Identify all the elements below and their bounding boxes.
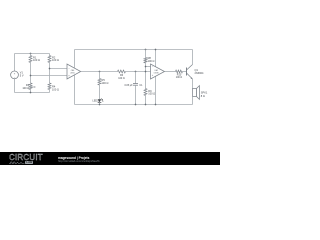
wire OA2 positive supply pin: [155, 50, 157, 67]
node LED bottom junction: [99, 104, 101, 106]
wire R8 upper lead: [145, 50, 147, 58]
node stub junction: [145, 66, 147, 68]
wire bottom rail of bridge: [15, 92, 50, 94]
LED emission arrows: [101, 98, 103, 99]
transistor Q1: [186, 68, 188, 76]
node R8 top rail junction: [145, 49, 147, 51]
CircuitLab logo waveform: [9, 161, 25, 165]
svg-text:OA1: OA1: [71, 69, 75, 72]
wire C1 upper lead: [135, 72, 137, 84]
svg-text:0.05 µF: 0.05 µF: [124, 84, 133, 87]
svg-text:100 Ω: 100 Ω: [33, 58, 40, 62]
node branch1 bottom junction: [30, 92, 32, 94]
wire branch1 lower lead: [30, 90, 32, 93]
wire top power rail: [75, 49, 193, 51]
resistor R1: [29, 56, 32, 63]
svg-text:100 Ω: 100 Ω: [118, 77, 125, 80]
wire branch2 lower lead: [49, 90, 51, 93]
node tap B junction: [49, 68, 51, 70]
svg-text:LM741: LM741: [70, 73, 75, 75]
LED LED1: [98, 99, 102, 102]
voltage source V1: [11, 71, 19, 79]
resistor R9: [144, 89, 147, 96]
node C1 bottom junction: [135, 104, 137, 106]
node C1 junction: [135, 71, 137, 73]
svg-text:5 V: 5 V: [20, 74, 24, 78]
wire branch1 middle: [30, 63, 32, 84]
node OA2 top rail junction: [155, 49, 157, 51]
resistor R10: [176, 70, 183, 73]
wiper arrow of R3: [31, 86, 34, 88]
svg-text:100 Ω: 100 Ω: [22, 86, 29, 90]
svg-text:8 Ω: 8 Ω: [201, 94, 205, 98]
wire R5 to LED: [99, 85, 101, 99]
watermark url text: [58, 160, 100, 163]
wire R8 to R9: [145, 63, 147, 89]
speaker SPK1: [193, 89, 197, 97]
resistor R5: [98, 79, 101, 86]
wire bridge tap B to OA1 inverting input: [50, 68, 68, 70]
op-amp OA2: [151, 64, 165, 79]
wire LED cathode to bottom rail: [99, 103, 101, 105]
svg-text:SPK1: SPK1: [201, 90, 208, 94]
wire stub to OA2 inverting input: [146, 66, 151, 68]
wire OA1 negative supply pin: [74, 75, 76, 104]
svg-text:100 Ω: 100 Ω: [52, 87, 59, 91]
wire bridge tap A to OA1 non-inverting input: [31, 75, 68, 77]
svg-text:OA2: OA2: [154, 69, 158, 72]
wire R10 to base: [183, 71, 187, 73]
node tap A junction: [30, 75, 32, 77]
wire branch2 upper lead: [49, 54, 51, 56]
op-amp OA1: [67, 64, 81, 79]
node OA2 bottom rail junction: [155, 104, 157, 106]
wire R9 lower lead: [145, 96, 147, 105]
svg-text:100 Ω: 100 Ω: [148, 92, 155, 96]
svg-text:LED1: LED1: [92, 98, 99, 102]
svg-text:2N3904: 2N3904: [195, 71, 205, 75]
node branch1 top junction: [30, 53, 32, 55]
wire left vertical below source: [14, 79, 16, 93]
wire OA2 negative supply pin: [155, 76, 157, 104]
CircuitLab logo LAB box: [25, 161, 33, 164]
node signal crossing junction: [145, 71, 147, 73]
svg-text:100 Ω: 100 Ω: [176, 76, 183, 79]
wire speaker to bottom rail: [192, 97, 194, 105]
node LED branch junction: [99, 71, 101, 73]
svg-text:100 Ω: 100 Ω: [102, 81, 109, 85]
svg-text:LM386: LM386: [154, 72, 159, 74]
svg-text:100 Ω: 100 Ω: [148, 59, 155, 63]
CircuitLab logo word CIRCUIT: [9, 153, 43, 162]
wire OA1 positive supply pin: [74, 50, 76, 68]
wire C1 lower lead: [135, 85, 137, 104]
wire emitter to speaker: [192, 79, 194, 89]
wire left vertical above source: [14, 54, 16, 72]
wire top rail of bridge: [15, 53, 50, 55]
resistor R3 variable: [29, 83, 32, 90]
wire OA2 output: [165, 71, 176, 73]
resistor R2: [48, 56, 51, 63]
resistor R8: [144, 58, 147, 64]
resistor R6: [118, 70, 126, 73]
svg-text:100 Ω: 100 Ω: [52, 58, 59, 62]
wire R6 to OA2: [126, 71, 151, 73]
watermark title text: [58, 156, 89, 160]
wire branch1 upper lead: [30, 54, 32, 56]
wire OA1 output: [81, 71, 118, 73]
capacitor C1: [133, 83, 138, 85]
wire collector to top rail: [192, 50, 194, 65]
wire branch2 middle: [49, 63, 51, 84]
wire LED branch upper lead: [99, 72, 101, 79]
node R9 bottom junction: [145, 104, 147, 106]
resistor R4: [48, 83, 51, 90]
wire bottom power rail: [75, 104, 193, 106]
